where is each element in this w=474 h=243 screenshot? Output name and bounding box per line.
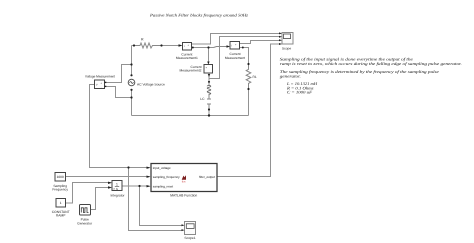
MATLAB logo fcn icon xyxy=(182,175,186,179)
scope1 block xyxy=(182,222,196,241)
svg-text:C = 1000 uF: C = 1000 uF xyxy=(287,90,313,95)
wire: bottom bus xyxy=(132,115,249,117)
svg-text:Scope1: Scope1 xyxy=(184,236,195,240)
svg-text:Generator: Generator xyxy=(77,221,93,225)
constant block 1000 (Sampling Frequency) xyxy=(52,173,68,192)
svg-text:generator.: generator. xyxy=(280,73,301,78)
resistor R1 xyxy=(246,63,257,90)
svg-text:-: - xyxy=(101,86,102,89)
svg-text:1: 1 xyxy=(60,201,62,205)
svg-text:LC: LC xyxy=(200,97,205,101)
wire: CM1 signal to Scope input 1 xyxy=(192,34,280,45)
current measurement2 block xyxy=(180,62,213,78)
wire: integrator output branch down to Scope1 input 1 xyxy=(140,186,183,226)
svg-text:sampling_reset: sampling_reset xyxy=(153,184,174,188)
svg-text:Frequency: Frequency xyxy=(52,187,68,191)
wire: step segment to CM3 xyxy=(214,47,229,48)
constant block 1 (CONSTANT RAMP) xyxy=(52,199,70,218)
scope block xyxy=(279,32,293,50)
svg-text:Voltage Measurement: Voltage Measurement xyxy=(85,75,115,79)
wire: branch down to Current Measurement2 xyxy=(208,48,210,64)
svg-text:filter_output: filter_output xyxy=(199,175,215,179)
voltage measurement block U:VM xyxy=(85,75,115,90)
inductor-capacitor LC branch xyxy=(200,81,211,117)
svg-text:Measurement2: Measurement2 xyxy=(180,69,202,73)
wire: source top vertical xyxy=(131,46,133,76)
wire: Integrator output to MATLAB sampling_reset xyxy=(122,185,150,187)
svg-text:AC Voltage Source: AC Voltage Source xyxy=(137,83,165,87)
MATLAB Function block xyxy=(147,164,218,198)
svg-text:fcn: fcn xyxy=(182,181,186,184)
svg-text:Measurement1: Measurement1 xyxy=(176,56,198,60)
junction: integrator output branch xyxy=(138,185,140,187)
svg-text:input_voltage: input_voltage xyxy=(153,166,171,170)
title annotation xyxy=(149,12,249,17)
wire: R1 bottom to bus end xyxy=(248,89,250,116)
wire: Sampling Frequency 1000 to MATLAB sampling_frequency xyxy=(66,176,150,178)
wire: top node to resistor R lead xyxy=(132,45,135,47)
svg-text:ramp is reset to zero, which o: ramp is reset to zero, which occurs duri… xyxy=(280,61,462,66)
svg-text:R1: R1 xyxy=(253,75,257,79)
wire: CM3 electrical to R1 branch xyxy=(240,48,249,65)
svg-text:The sampling frequency is dete: The sampling frequency is determined by … xyxy=(280,69,439,74)
wire: Voltage Measurement output down to MATLAB input_voltage xyxy=(90,85,150,168)
wire: CM3 signal to Scope input 3 xyxy=(240,41,280,44)
wire: CONSTANT RAMP to Integrator input 1 xyxy=(66,183,111,204)
svg-text:Measurement: Measurement xyxy=(225,56,245,60)
resistor R xyxy=(133,38,163,48)
wire: CM1 electrical to Current Measurement input xyxy=(192,47,214,49)
svg-text:Passive Notch Filter blocks fr: Passive Notch Filter blocks frequency ar… xyxy=(149,12,249,17)
wire: CM2 signal tee to Scope input 2 xyxy=(209,37,280,79)
junction: CM2 branch xyxy=(207,46,209,48)
wire: Voltage Measurement plus to source node xyxy=(105,65,132,83)
wire: source bottom vertical to bus corner xyxy=(131,90,133,116)
junction: VM plus on source line xyxy=(130,63,132,65)
pulse generator block xyxy=(77,205,93,226)
junction: input_voltage branch xyxy=(127,166,129,168)
svg-text:Scope: Scope xyxy=(282,47,292,51)
current measurement1 block xyxy=(176,43,198,61)
wire: Pulse Generator to Integrator reset input xyxy=(91,188,111,210)
svg-text:sampling_frequency: sampling_frequency xyxy=(153,175,180,179)
wire: Voltage Measurement minus to source bottom xyxy=(105,87,132,98)
wire: CM2 bottom to LC top xyxy=(208,74,210,83)
sampling note annotation xyxy=(280,56,462,94)
AC voltage source xyxy=(128,74,165,91)
wire: LC bottom to bus xyxy=(208,110,210,116)
svg-text:s: s xyxy=(116,187,118,191)
svg-text:MATLAB Function: MATLAB Function xyxy=(170,193,197,197)
wire: input_voltage branch down to Scope1 input 2 xyxy=(129,168,183,231)
current measurement block (CM3) xyxy=(225,42,245,60)
svg-text:1000: 1000 xyxy=(57,175,64,179)
wire: R right lead to Current Measurement1 xyxy=(162,45,181,47)
svg-text:RAMP: RAMP xyxy=(56,213,66,217)
svg-text:Integrator: Integrator xyxy=(110,193,125,197)
wire: MATLAB filter_output to Scope input 4 xyxy=(217,44,280,177)
junction: VM minus on source line xyxy=(130,96,132,98)
integrator block xyxy=(108,181,125,198)
